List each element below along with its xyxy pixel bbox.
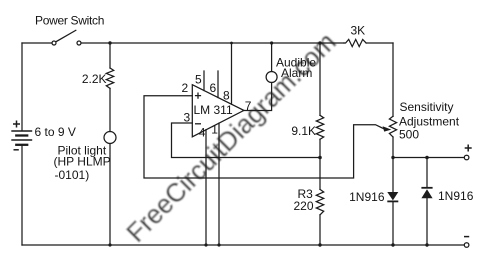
wire 9.1K branch upper [319, 43, 321, 115]
audible alarm circle [266, 72, 277, 83]
junction dot bottom R3 [318, 243, 321, 246]
diode D2 cathode bar [421, 187, 432, 189]
junction dot node pin3 [318, 156, 322, 160]
svg-text:Alarm: Alarm [281, 66, 312, 80]
junction dot bottom D2 [425, 243, 428, 246]
junction dot top 2.2K [108, 41, 111, 44]
potentiometer 500 zigzag [389, 116, 396, 137]
wire alarm to pin7 [244, 83, 272, 111]
battery plus sign [13, 121, 20, 128]
junction dot bottom pilot [108, 243, 111, 246]
pilot light lamp circle [104, 132, 116, 144]
svg-text:-0101): -0101) [55, 168, 90, 182]
wire pin2 loop [144, 96, 384, 178]
terminal plus circle [464, 155, 469, 160]
svg-text:220: 220 [294, 199, 314, 213]
wire left rail lower [21, 146, 23, 245]
wire 3K rail zigzag resistor 3K [344, 39, 366, 46]
svg-text:LM 311: LM 311 [194, 103, 233, 117]
wire top rail left segment [22, 42, 52, 44]
wire pin6 stub [217, 71, 219, 98]
wire 2.2K branch upper [109, 43, 111, 68]
svg-text:2.2K: 2.2K [82, 72, 107, 86]
resistor R 2.2K [106, 68, 113, 88]
wire D2 to bottom rail [426, 198, 428, 245]
wire R3 to bottom rail [319, 215, 321, 245]
switch S1 left contact [52, 41, 56, 45]
junction dot plus rail pot [391, 156, 394, 159]
wire diode D1 branch [392, 158, 394, 193]
wire plus rail [393, 157, 464, 159]
battery B1 long plate top [12, 130, 32, 132]
svg-text:3K: 3K [351, 24, 366, 38]
switch S1 blade [56, 30, 76, 41]
svg-text:2: 2 [182, 81, 189, 95]
switch S1 right contact [77, 41, 81, 45]
svg-text:5: 5 [195, 73, 202, 87]
op-amp U1 LM311 triangle [192, 85, 244, 137]
diode D1 1N916 triangle [387, 192, 398, 200]
junction dot bottom pin1 [217, 243, 220, 246]
svg-text:3: 3 [184, 111, 191, 125]
battery B1 long plate 3 [12, 139, 32, 141]
junction dot top 9.1K [318, 41, 321, 44]
junction dot bottom D1 [391, 243, 394, 246]
wire pilot light to bottom rail [109, 144, 111, 246]
op-amp plus input sign [195, 93, 201, 99]
wire 9.1K bottom to node [319, 139, 321, 157]
wire pin8 branch [231, 43, 233, 104]
wire alarm branch upper [271, 43, 273, 72]
svg-text:6 to 9 V: 6 to 9 V [35, 125, 76, 139]
wire op-amp pin1 to bottom rail [218, 123, 220, 245]
battery B1 short plate 2 [16, 134, 27, 136]
svg-text:6: 6 [210, 81, 217, 95]
resistor R3 220 [316, 189, 323, 215]
svg-text:500: 500 [399, 128, 419, 142]
diode D1 cathode bar [387, 200, 398, 202]
wire diode D2 branch upper [426, 158, 428, 188]
op-amp minus input sign [195, 123, 201, 125]
terminal minus circle [464, 243, 469, 248]
svg-text:4: 4 [199, 126, 206, 140]
battery minus sign [14, 149, 19, 151]
diode D2 1N916 triangle [421, 189, 432, 198]
terminal minus sign [464, 236, 469, 238]
svg-text:1: 1 [211, 123, 218, 137]
resistor 9.1K [316, 115, 323, 139]
junction dot top pin8 [230, 42, 233, 45]
svg-text:Power Switch: Power Switch [35, 14, 104, 28]
wire D1 to bottom rail [392, 201, 394, 245]
svg-text:8: 8 [223, 89, 230, 103]
wire top rail main segment [81, 42, 344, 44]
svg-text:1N916: 1N916 [438, 189, 474, 203]
battery B1 short plate 4 [16, 144, 27, 146]
wire pin3 loop [172, 123, 321, 158]
wire top rail right of 3K [366, 42, 393, 44]
junction dot plus rail D2 [425, 156, 429, 160]
svg-text:7: 7 [245, 99, 252, 113]
svg-text:Sensitivity: Sensitivity [400, 100, 454, 114]
pot wiper arrowhead [383, 126, 392, 131]
svg-text:9.1K: 9.1K [291, 124, 316, 138]
svg-text:1N916: 1N916 [349, 190, 385, 204]
wire node to R3 [319, 158, 321, 190]
wire pot branch upper [392, 43, 394, 116]
wire left rail upper [21, 43, 23, 130]
terminal plus sign [465, 145, 472, 152]
wire bottom rail [22, 244, 464, 246]
junction dot bottom pin4 [204, 243, 207, 246]
wire op-amp pin4 to bottom rail [205, 130, 207, 245]
junction dot top alarm [270, 41, 273, 44]
wire pin5 stub [203, 71, 205, 91]
wire pot bottom to plus node [392, 137, 394, 158]
wire resistor to pilot light [109, 88, 111, 131]
svg-text:(HP HLMP: (HP HLMP [54, 155, 111, 169]
svg-text:Adjustment: Adjustment [399, 115, 460, 129]
